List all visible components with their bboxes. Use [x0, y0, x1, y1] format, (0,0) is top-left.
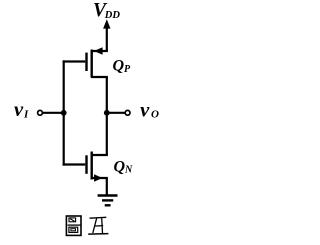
node output junction dot — [104, 110, 110, 116]
wire input lead — [43, 112, 63, 114]
transistor QN gate bar — [85, 155, 87, 174]
svg-text:N: N — [124, 165, 133, 176]
wire PMOS gate lead — [63, 60, 86, 62]
svg-text:I: I — [23, 108, 29, 120]
svg-text:O: O — [151, 109, 159, 121]
caption character 五 (five) — [88, 217, 108, 234]
node input terminal circle — [38, 110, 43, 115]
node output terminal circle — [125, 110, 130, 115]
wire NMOS source to ground — [106, 178, 108, 196]
transistor QP label — [113, 58, 132, 76]
wire PMOS drain lead — [91, 76, 108, 78]
wire right drain bus vertical — [106, 77, 108, 155]
transistor QP gate bar — [85, 53, 87, 71]
wire NMOS source lead — [91, 177, 108, 179]
wire NMOS drain lead — [91, 154, 108, 156]
svg-text:P: P — [124, 64, 131, 75]
wire PMOS source lead — [91, 50, 108, 52]
transistor QN source arrow (points out of device) — [94, 174, 102, 181]
wire output lead — [107, 112, 125, 114]
ground symbol — [98, 196, 118, 206]
node output terminal vO label — [140, 99, 159, 121]
svg-text:v: v — [14, 99, 24, 121]
node input terminal vI label — [14, 99, 29, 121]
svg-text:v: v — [140, 99, 150, 121]
caption character 圖 (Figure) — [66, 216, 81, 235]
svg-text:Q: Q — [114, 159, 126, 176]
node input junction dot — [61, 110, 67, 116]
svg-text:Q: Q — [113, 58, 125, 75]
svg-text:DD: DD — [104, 10, 121, 21]
node VDD label — [93, 0, 120, 21]
transistor QN label — [114, 159, 134, 176]
wire left gate bus vertical — [63, 60, 65, 165]
transistor QN channel bar — [90, 152, 92, 180]
wire NMOS gate lead — [63, 163, 86, 165]
transistor QP channel bar — [90, 50, 92, 78]
wire VDD arrow stem — [106, 27, 108, 52]
transistor Q1 PMOS source arrow (points into device) — [94, 47, 103, 54]
node VDD arrowhead — [103, 19, 110, 28]
